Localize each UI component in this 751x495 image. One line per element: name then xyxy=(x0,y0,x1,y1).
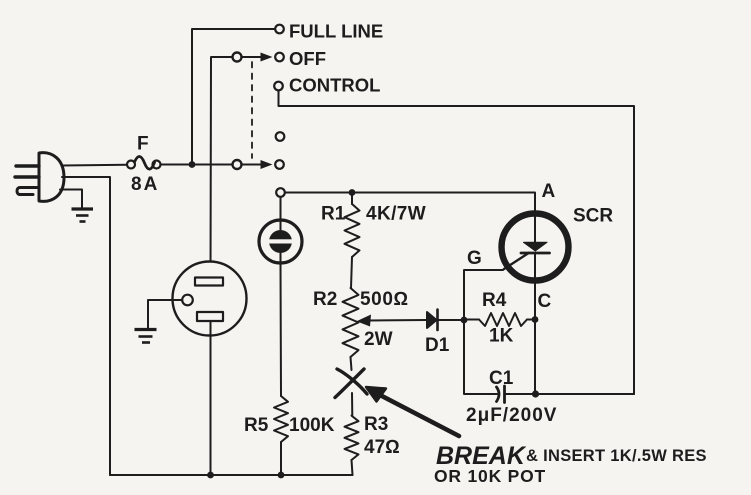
wire: top pole to outlet vertical xyxy=(211,57,233,278)
diode D1 xyxy=(427,310,438,331)
wire: plug neutral to left rail xyxy=(62,177,110,475)
break X mark xyxy=(335,369,367,398)
gang dashed link xyxy=(251,62,253,158)
R2 wiper arrow xyxy=(357,315,428,327)
resistor R3 xyxy=(345,416,359,460)
junction outlet/rail xyxy=(207,472,214,479)
wire: contact to lamp xyxy=(280,197,282,219)
switch contact OFF xyxy=(275,53,284,62)
svg-text:OR 10K POT: OR 10K POT xyxy=(434,466,546,486)
AC line plug P1 xyxy=(15,153,64,202)
svg-text:1K: 1K xyxy=(489,326,514,347)
fuse F 8A xyxy=(127,156,161,169)
switch contact FULL LINE xyxy=(275,25,284,34)
svg-text:& INSERT 1K/.5W RES: & INSERT 1K/.5W RES xyxy=(526,447,707,465)
capacitor C1 xyxy=(497,386,635,403)
resistor R1 xyxy=(351,193,353,205)
bottom rail wire xyxy=(110,474,353,476)
switch contact CONTROL xyxy=(274,82,283,91)
outlet SO1 xyxy=(173,262,247,336)
wire: cathode down xyxy=(534,320,536,395)
SCR body xyxy=(502,211,569,320)
switch arm arrow S1a xyxy=(242,53,273,62)
svg-text:R2: R2 xyxy=(313,289,337,310)
wire: control contact to SCR anode xyxy=(285,193,535,212)
wire: wiper to diode xyxy=(426,319,428,321)
svg-text:500Ω: 500Ω xyxy=(360,289,409,310)
wire: CONTROL contact to right loop xyxy=(279,91,635,395)
resistor R4 xyxy=(464,319,479,321)
svg-text:FULL LINE: FULL LINE xyxy=(289,21,383,42)
svg-text:2W: 2W xyxy=(364,329,393,350)
svg-text:F: F xyxy=(137,134,149,155)
wire: X to R3 xyxy=(351,393,353,416)
junction cathode/C1 rail xyxy=(532,390,539,397)
wire: lamp to R5 xyxy=(280,264,283,396)
wire: gate node vertical xyxy=(464,270,503,320)
switch arm arrow S1b xyxy=(242,160,273,169)
svg-text:R4: R4 xyxy=(482,290,507,311)
svg-text:47Ω: 47Ω xyxy=(364,437,400,458)
wire: plug hot to fuse xyxy=(62,164,127,167)
neon lamp NE-1 xyxy=(259,219,302,264)
svg-text:SCR: SCR xyxy=(573,206,613,227)
switch pole S1b xyxy=(233,160,242,169)
svg-text:4K/7W: 4K/7W xyxy=(366,204,426,225)
svg-text:R1: R1 xyxy=(321,204,346,225)
switch pole S1a xyxy=(233,53,242,62)
wire: outlet neutral down to bottom rail xyxy=(210,322,212,476)
junction gate node xyxy=(461,317,468,324)
wire: tap up to FULL LINE contact xyxy=(192,29,275,165)
wire: outlet ground lead xyxy=(148,300,182,328)
junction at line/full-line tap xyxy=(189,161,196,168)
svg-text:R5: R5 xyxy=(244,415,269,436)
svg-text:8A: 8A xyxy=(131,174,159,195)
switch contact S1b control xyxy=(276,188,285,197)
svg-text:100K: 100K xyxy=(289,415,335,436)
svg-text:C1: C1 xyxy=(489,368,514,389)
svg-text:CONTROL: CONTROL xyxy=(289,75,380,96)
svg-text:R3: R3 xyxy=(364,414,388,435)
wire: fuse to switch pole row xyxy=(161,164,233,166)
svg-text:C: C xyxy=(538,291,552,312)
junction at R1 top xyxy=(349,189,356,196)
svg-text:G: G xyxy=(467,248,482,269)
junction R5/rail xyxy=(278,472,285,479)
wire: plug ground prong lead xyxy=(60,190,82,208)
svg-text:2μF/200V: 2μF/200V xyxy=(466,405,557,426)
label BREAK note line 1 xyxy=(436,442,707,470)
potentiometer R2 xyxy=(343,288,359,357)
break pointer arrow xyxy=(366,387,459,436)
svg-text:OFF: OFF xyxy=(289,48,326,69)
switch contact (unused) xyxy=(276,132,285,141)
wire: diode to gate node xyxy=(439,319,465,321)
wire: gate node down to C1 xyxy=(464,320,497,394)
resistor R5 xyxy=(274,396,288,442)
junction cathode/R4 xyxy=(532,316,539,323)
switch contact S1b off xyxy=(275,160,284,169)
svg-text:D1: D1 xyxy=(425,335,450,356)
ground symbol at outlet xyxy=(135,330,157,343)
ground symbol at plug xyxy=(72,209,94,222)
svg-text:A: A xyxy=(542,181,556,202)
